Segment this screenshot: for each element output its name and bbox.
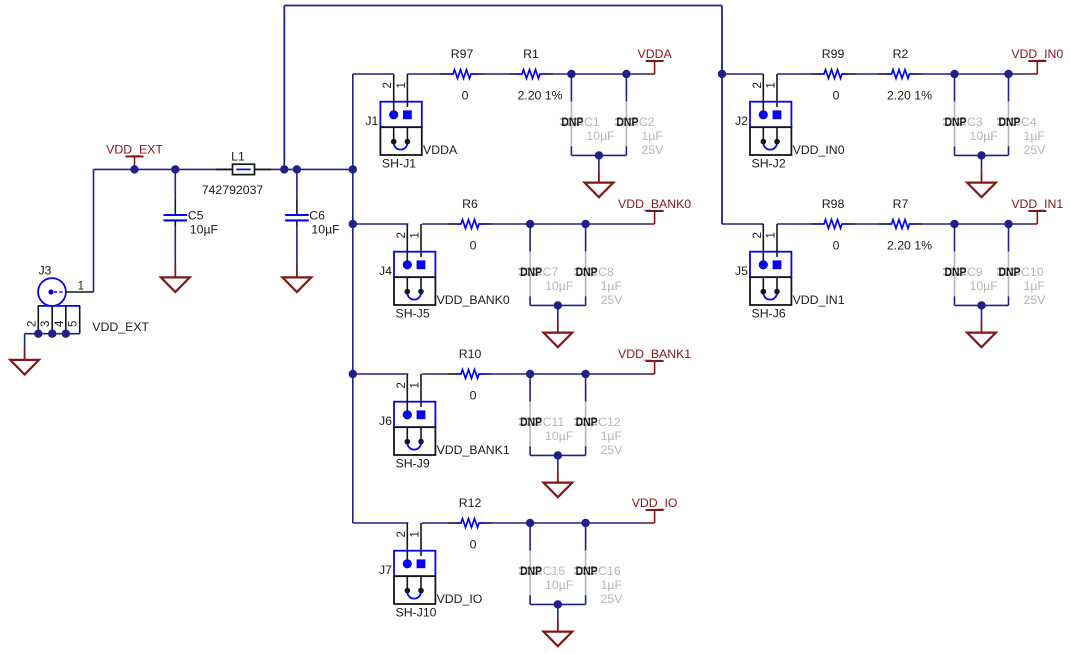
node at C16 tap [581,519,589,527]
wire junction to ground row4 caps [557,604,559,619]
node J3 pin3 [48,330,56,338]
svg-text:VDD_BANK1: VDD_BANK1 [437,443,510,457]
ground under C6 [283,265,312,292]
capacitor C6 [285,169,309,265]
node top-bus riser junction [280,165,288,173]
svg-text:C9: C9 [967,265,983,279]
wire C1/C2 bottom rail [571,154,626,156]
wire R2 to C3 tap [923,73,955,75]
wire row4 trunk to J7 pin2 [353,522,409,524]
svg-text:10µF: 10µF [970,279,999,293]
wire J3 ground bus [25,334,80,348]
resistor R6 [448,220,492,229]
svg-text:DNP: DNP [999,115,1021,129]
wire top bus right drop (right trunk) [721,6,723,225]
svg-text:J1: J1 [365,114,378,128]
node C5 tap [171,165,179,173]
capacitor C3 (DNP) vertical leads [943,74,966,155]
svg-text:4: 4 [54,320,66,327]
node at C1 tap [567,70,575,78]
svg-text:J7: J7 [379,563,392,577]
svg-text:2: 2 [26,321,38,327]
svg-text:DNP: DNP [945,115,967,129]
node C11/C12 bottom junction [554,451,562,459]
node C3/C4 bottom junction [977,151,985,159]
svg-text:R98: R98 [822,197,845,211]
svg-text:1µF: 1µF [641,129,663,143]
svg-text:C11: C11 [543,415,565,429]
jumper header J6 body [394,402,435,428]
wire row1 J1 pin1 to R97 [407,73,440,75]
pin 2 riser of J5 [762,224,764,262]
capacitor C5 [164,169,188,265]
svg-text:DNP: DNP [520,265,542,279]
shunt SH-J5 body [394,277,435,305]
capacitor C2 (DNP) vertical leads [615,74,638,155]
svg-text:VDD_IN1: VDD_IN1 [1011,197,1063,211]
wire left trunk vertical [352,74,354,523]
svg-text:J6: J6 [379,414,392,428]
svg-text:J5: J5 [735,264,748,278]
node right trunk row1 branch [718,70,726,78]
pin 3 of J3 [51,306,53,334]
jumper header J4 body [394,252,435,278]
svg-text:10µF: 10µF [545,279,574,293]
wire rowR1 J2 pin1 to R99 [777,73,811,75]
svg-text:1: 1 [78,281,84,293]
node C1/C2 bottom junction [595,151,603,159]
wire row2 trunk to J4 pin2 [353,223,409,225]
ground J3 shield [10,348,39,375]
node at C11 tap [526,370,534,378]
svg-text:R2: R2 [893,47,909,61]
wire J3 pin 1 [66,291,94,293]
resistor R7 [879,220,923,229]
svg-text:2: 2 [396,531,408,537]
jumper header J7 body [394,551,435,577]
svg-text:L1: L1 [231,150,245,164]
svg-text:2: 2 [752,82,764,88]
svg-text:10µF: 10µF [586,129,615,143]
svg-text:0: 0 [833,89,840,103]
power flag VDD_EXT [106,143,163,170]
svg-text:R6: R6 [462,197,478,211]
svg-text:VDD_IO: VDD_IO [437,592,483,606]
wire R1 to C1 tap [553,73,571,75]
wire C11/C12 bottom rail [530,454,586,456]
node at C12 tap [581,370,589,378]
wire row1 caps to VDDA flag [571,73,646,75]
capacitor C10 (DNP) vertical leads [997,224,1020,305]
pin 2 riser of J2 [762,74,764,112]
svg-text:R12: R12 [459,496,482,510]
svg-text:VDD_EXT: VDD_EXT [106,143,163,157]
shunt SH-J2 body [750,127,791,155]
pin 5 of J3 [79,306,81,334]
power flag VDD_IN0 [1011,47,1063,74]
pin 1 riser of J4 [420,224,422,262]
pin 2 riser of J1 [393,74,395,112]
svg-text:2: 2 [396,232,408,238]
svg-text:1: 1 [410,531,422,537]
pin 2 riser of J6 [406,374,408,412]
wire junction to ground row1 caps [598,155,600,170]
wire rowR2 trunk to J5 pin2 [722,223,763,225]
svg-text:0: 0 [833,239,840,253]
wire main rail VDD_EXT [94,168,353,170]
ground row2 caps [543,320,572,347]
power flag VDD_BANK0 [618,197,691,224]
pin 2 of J3 [37,306,39,334]
wire row2 caps to VDD_BANK0 flag [530,223,647,225]
capacitor C12 (DNP) vertical leads [574,374,597,455]
shunt SH-J10 body [394,576,435,604]
svg-text:DNP: DNP [999,265,1021,279]
ground rowR2 caps [967,320,996,347]
svg-text:2: 2 [382,82,394,88]
svg-text:1: 1 [410,382,422,388]
svg-text:DNP: DNP [561,115,583,129]
wire R12 to C15 tap [492,522,530,524]
resistor R97 [440,70,484,79]
shunt SH-J6 body [750,277,791,305]
wire row3 caps to VDD_BANK1 flag [530,373,647,375]
svg-text:25V: 25V [1024,143,1047,157]
svg-text:C12: C12 [598,415,621,429]
node at C7 tap [526,220,534,228]
wire row2 J4 pin1 to R6 [422,223,448,225]
node C15/C16 bottom junction [554,600,562,608]
node at C4 tap [1004,70,1012,78]
wire rowR1 caps to VDD_IN0 flag [955,73,1030,75]
svg-text:C7: C7 [543,265,559,279]
wire R10 to C11 tap [492,373,530,375]
node left trunk row2 branch [349,220,357,228]
resistor R2 [879,70,923,79]
ground row3 caps [543,470,572,497]
svg-text:10µF: 10µF [970,129,999,143]
inductor L1 (ferrite bead) [216,164,271,174]
svg-text:J3: J3 [39,264,52,278]
pin 1 riser of J6 [420,374,422,412]
svg-text:0: 0 [470,538,477,552]
resistor R1 [509,70,553,79]
svg-text:742792037: 742792037 [202,183,264,197]
wire rowR1 trunk to J2 pin2 [722,73,763,75]
pin 2 riser of J7 [406,523,408,561]
svg-text:1µF: 1µF [601,578,623,592]
capacitor C11 (DNP) vertical leads [519,374,542,455]
wire rowR2 caps to VDD_IN1 flag [955,223,1030,225]
svg-text:SH-J5: SH-J5 [396,307,430,321]
svg-text:C5: C5 [188,209,204,223]
svg-text:1: 1 [766,82,778,88]
capacitor C7 (DNP) vertical leads [519,224,542,305]
svg-text:C4: C4 [1021,115,1037,129]
wire junction to ground rowR2 caps [981,305,983,320]
wire C15/C16 bottom rail [530,603,586,605]
resistor R98 [811,220,855,229]
node at C10 tap [1004,220,1012,228]
wire junction to ground row3 caps [557,455,559,470]
svg-text:10µF: 10µF [190,223,219,237]
svg-text:25V: 25V [641,143,664,157]
svg-text:25V: 25V [601,592,624,606]
power flag VDD_IN1 [1011,197,1063,224]
svg-text:25V: 25V [601,293,624,307]
node J3 pin2 [34,330,42,338]
wire junction to ground row2 caps [557,305,559,320]
wire row3 J6 pin1 to R10 [422,373,448,375]
svg-text:VDD_EXT: VDD_EXT [92,320,149,334]
svg-text:DNP: DNP [520,564,542,578]
node at C2 tap [622,70,630,78]
svg-text:1: 1 [396,82,408,88]
pin 4 of J3 [65,306,67,334]
wire R7 to C9 tap [923,223,955,225]
svg-text:C8: C8 [598,265,614,279]
power flag VDDA [638,47,673,74]
svg-text:VDD_BANK0: VDD_BANK0 [618,197,691,211]
svg-text:J4: J4 [379,264,392,278]
capacitor C8 (DNP) vertical leads [574,224,597,305]
power flag VDD_IO [632,496,678,523]
svg-text:R7: R7 [893,197,909,211]
svg-text:DNP: DNP [576,564,598,578]
svg-text:VDD_IN1: VDD_IN1 [793,293,845,307]
capacitor C15 (DNP) vertical leads [519,523,542,604]
svg-text:1µF: 1µF [1024,129,1046,143]
ground rowR1 caps [967,170,996,197]
wire row1 trunk to J1 pin2 [353,73,394,75]
wire R99 to R2 [855,73,879,75]
pin 1 riser of J7 [420,523,422,561]
pin 1 riser of J5 [776,224,778,262]
svg-text:DNP: DNP [616,115,638,129]
svg-text:VDD_IN0: VDD_IN0 [1011,47,1063,61]
svg-text:R99: R99 [822,47,845,61]
node C7/C8 bottom junction [554,301,562,309]
jumper header J1 body [380,102,421,128]
wire R98 to R7 [855,223,879,225]
svg-text:C3: C3 [967,115,983,129]
wire row4 caps to VDD_IO flag [530,522,647,524]
svg-text:VDD_IO: VDD_IO [632,496,678,510]
svg-text:C2: C2 [639,115,655,129]
svg-text:DNP: DNP [576,265,598,279]
svg-text:SH-J2: SH-J2 [752,157,786,171]
resistor R12 [448,519,492,528]
wire R97 to R1 [484,73,509,75]
svg-text:C6: C6 [309,209,325,223]
node C9/C10 bottom junction [977,301,985,309]
wire J3 pin1 riser [93,169,95,292]
node J3 pin4 [62,330,70,338]
svg-text:25V: 25V [1024,293,1047,307]
wire row4 J7 pin1 to R12 [422,522,448,524]
svg-text:C16: C16 [598,564,621,578]
svg-text:1µF: 1µF [1024,279,1046,293]
svg-text:VDDA: VDDA [423,143,458,157]
node at C9 tap [950,220,958,228]
svg-text:2.20 1%: 2.20 1% [517,89,562,103]
svg-text:1: 1 [766,232,778,238]
svg-text:R97: R97 [451,47,474,61]
pin 1 riser of J1 [406,74,408,112]
node at C8 tap [581,220,589,228]
wire R6 to C7 tap [492,223,530,225]
capacitor C16 (DNP) vertical leads [574,523,597,604]
node left trunk junction on rail [349,165,357,173]
wire C7/C8 bottom rail [530,304,586,306]
pin 1 riser of J2 [776,74,778,112]
node C6 tap [293,165,301,173]
wire C3/C4 bottom rail [955,154,1009,156]
svg-text:SH-J6: SH-J6 [752,307,786,321]
capacitor C1 (DNP) vertical leads [560,74,583,155]
svg-text:J2: J2 [735,114,748,128]
svg-text:SH-J9: SH-J9 [396,457,430,471]
svg-text:VDD_BANK1: VDD_BANK1 [618,347,691,361]
svg-text:C10: C10 [1021,265,1044,279]
svg-text:C15: C15 [543,564,566,578]
connector J3 (SMA) [38,278,80,306]
svg-text:10µF: 10µF [311,223,340,237]
svg-text:VDDA: VDDA [638,47,673,61]
shunt SH-J9 body [394,427,435,455]
svg-text:C1: C1 [584,115,600,129]
wire row3 trunk to J6 pin2 [353,373,409,375]
svg-text:VDD_BANK0: VDD_BANK0 [437,293,510,307]
svg-text:10µF: 10µF [545,429,574,443]
ground row4 caps [543,619,572,646]
wire rowR2 J5 pin1 to R98 [777,223,811,225]
node left trunk row3 branch [349,370,357,378]
svg-text:SH-J10: SH-J10 [396,606,437,620]
svg-text:2: 2 [752,232,764,238]
svg-text:1µF: 1µF [601,429,623,443]
node VDD_EXT flag junction [130,165,138,173]
svg-text:25V: 25V [601,443,624,457]
wire top bus left drop to main rail [283,6,285,170]
jumper header J5 body [750,252,791,278]
power flag VDD_BANK1 [618,347,691,374]
wire junction to ground rowR1 caps [981,155,983,170]
capacitor C9 (DNP) vertical leads [943,224,966,305]
svg-text:10µF: 10µF [545,578,574,592]
jumper header J2 body [750,102,791,128]
svg-text:R10: R10 [459,347,482,361]
svg-text:0: 0 [470,239,477,253]
node at C3 tap [950,70,958,78]
node at C15 tap [526,519,534,527]
svg-text:2: 2 [396,382,408,388]
svg-text:DNP: DNP [520,415,542,429]
svg-text:1: 1 [410,232,422,238]
ground under C5 [161,265,190,292]
ground row1 caps [585,170,614,197]
svg-text:0: 0 [462,89,469,103]
capacitor C4 (DNP) vertical leads [997,74,1020,155]
pin 2 riser of J4 [406,224,408,262]
resistor R10 [448,370,492,379]
wire top bus horizontal [284,5,722,7]
svg-text:2.20 1%: 2.20 1% [887,239,932,253]
shunt SH-J1 body [380,127,421,155]
svg-text:VDD_IN0: VDD_IN0 [793,143,845,157]
svg-text:DNP: DNP [576,415,598,429]
svg-text:SH-J1: SH-J1 [382,157,416,171]
svg-text:5: 5 [68,321,80,327]
resistor R99 [811,70,855,79]
svg-text:2.20 1%: 2.20 1% [887,89,932,103]
svg-text:1µF: 1µF [601,279,623,293]
svg-text:0: 0 [470,389,477,403]
svg-text:DNP: DNP [945,265,967,279]
wire C9/C10 bottom rail [955,304,1009,306]
svg-text:R1: R1 [523,47,539,61]
svg-text:3: 3 [40,321,52,327]
